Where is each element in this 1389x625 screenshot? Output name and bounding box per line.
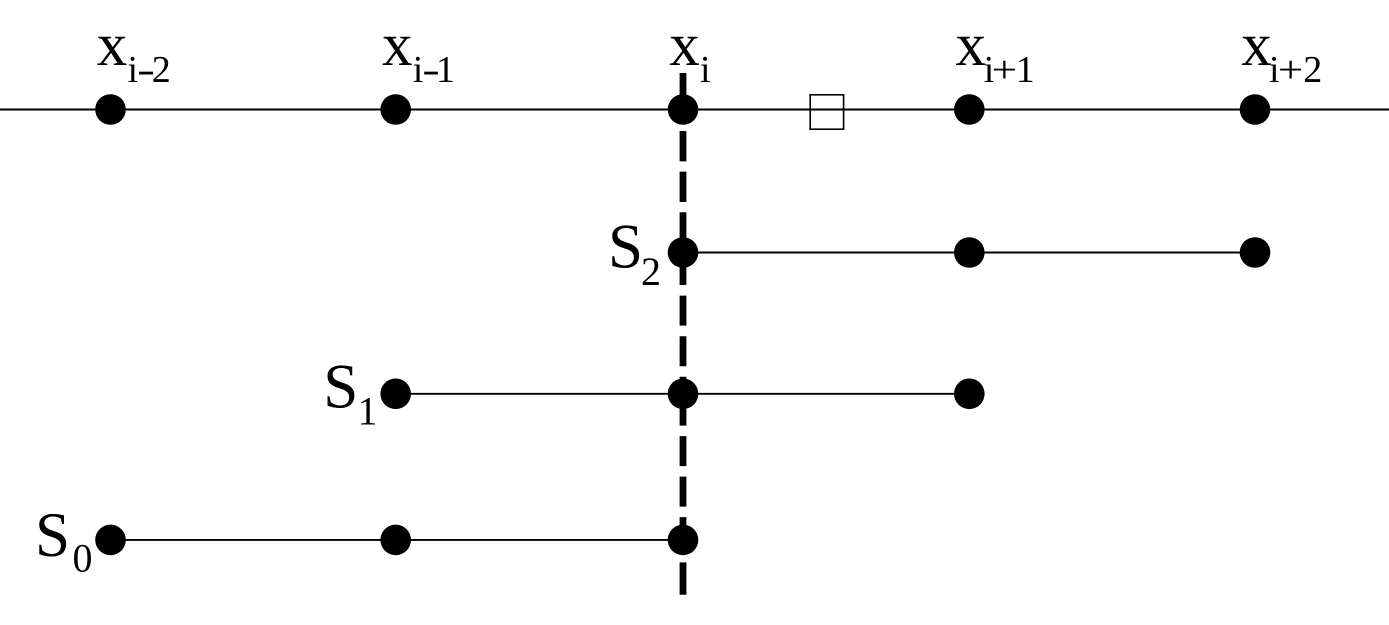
S1 node at x_i <box>668 379 699 410</box>
label x_i-1 <box>382 12 455 91</box>
grid node x_i+1 <box>954 94 985 125</box>
grid node x_i+2 <box>1240 94 1271 125</box>
grid node x_i-1 <box>380 94 411 125</box>
S0 node at x_i-1 <box>380 525 411 556</box>
label S0 <box>35 500 93 581</box>
S1 node at x_i+1 <box>954 379 985 410</box>
dashed vertical line segment S1 to S0 <box>680 396 687 525</box>
S2 node at x_i+1 <box>954 237 985 268</box>
label x_i+1 <box>956 12 1035 91</box>
label S1 <box>323 352 377 434</box>
svg-text:+: + <box>992 49 1018 91</box>
svg-text:S: S <box>323 352 358 422</box>
S0 node at x_i-2 <box>95 525 126 556</box>
svg-text:1: 1 <box>436 49 455 91</box>
dashed vertical line at x_i : segment above S2 <box>680 131 687 243</box>
svg-text:1: 1 <box>1016 49 1035 91</box>
svg-text:2: 2 <box>1303 49 1322 91</box>
S2 node at x_i <box>668 237 699 268</box>
svg-text:i: i <box>700 49 711 91</box>
grid axis line (main x-axis) <box>0 109 1389 111</box>
svg-text:x: x <box>382 12 413 79</box>
stencil S0 line <box>111 539 684 541</box>
svg-text:x: x <box>1241 12 1272 79</box>
svg-text:+: + <box>1278 49 1304 91</box>
open square marker between x_i and x_i+1 <box>810 95 843 129</box>
svg-text:x: x <box>956 12 987 79</box>
grid node x_i-2 <box>95 94 126 125</box>
svg-text:2: 2 <box>152 49 171 91</box>
label x_i <box>669 12 710 91</box>
stencil S1 line <box>396 393 970 395</box>
S1 node at x_i-1 <box>380 379 411 410</box>
svg-text:S: S <box>608 212 643 282</box>
svg-text:S: S <box>35 500 70 570</box>
S2 node at x_i+2 <box>1240 237 1271 268</box>
label S2 <box>608 212 661 294</box>
dashed vertical line bottom dash below S0 <box>680 562 687 594</box>
dashed vertical line stub above x_i dot <box>680 73 687 100</box>
label x_i-2 <box>97 12 171 91</box>
svg-text:x: x <box>669 12 700 79</box>
svg-text:2: 2 <box>641 249 661 294</box>
S0 node at x_i <box>668 525 699 556</box>
svg-text:1: 1 <box>358 388 378 433</box>
label x_i+2 <box>1241 12 1322 91</box>
dashed vertical line segment S2 to S1 <box>680 255 687 380</box>
svg-text:x: x <box>97 12 128 79</box>
svg-text:0: 0 <box>73 536 93 581</box>
grid node x_i <box>668 94 699 125</box>
stencil S2 line <box>683 252 1255 254</box>
